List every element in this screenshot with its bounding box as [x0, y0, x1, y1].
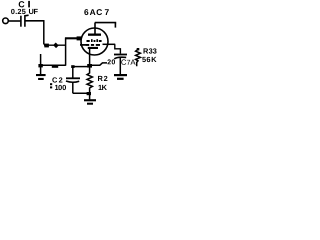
ground bottom bar2 — [87, 103, 93, 105]
grid lead to tube — [65, 37, 81, 39]
corner blob node — [44, 44, 49, 48]
grid stub left — [80, 44, 86, 46]
label C1 — [19, 1, 25, 7]
ground C7A bar1 — [114, 74, 127, 76]
capacitor C1 — [20, 16, 22, 27]
wire C1 to corner — [26, 20, 45, 22]
ground left bar2 — [38, 78, 44, 80]
cathode junction blob — [87, 64, 92, 68]
grid tick row1 a — [91, 39, 93, 42]
label 20 — [107, 59, 115, 64]
blob at tube edge — [77, 36, 82, 40]
C2 top lead — [72, 67, 74, 78]
grid dash row2 a — [86, 44, 89, 46]
label C1 digit 1 — [28, 1, 30, 8]
resistor R33 top dot — [137, 48, 140, 50]
cathode bar — [88, 47, 98, 49]
plate wire top — [95, 22, 116, 24]
wire down from C1 — [43, 21, 45, 45]
label R33 — [143, 48, 156, 53]
grid dash row1 b — [94, 40, 96, 42]
vertical riser at grid — [65, 38, 67, 66]
capacitor C7A top plate — [114, 54, 127, 56]
capacitor C7A bottom plate — [114, 57, 126, 59]
screen lead right — [103, 43, 116, 45]
label 1K — [98, 85, 106, 90]
label 56K — [142, 57, 156, 62]
corner junction blob — [38, 64, 42, 67]
ground riser bottom — [89, 93, 91, 99]
input terminal — [3, 18, 9, 24]
resistor R33 — [136, 49, 141, 66]
label 100 — [55, 85, 66, 90]
junction dot on grid wire — [53, 42, 59, 48]
bottom wire C2 to R2 — [73, 92, 90, 94]
grid dash row2 b — [91, 44, 94, 46]
grid dash row2 c — [96, 44, 100, 46]
label 100 leading colon mark — [50, 83, 52, 85]
capacitor C2 bottom plate — [66, 81, 79, 82]
ground left bar1 — [36, 74, 46, 76]
ground C7A bar2 — [117, 78, 124, 80]
left ground riser — [40, 54, 42, 74]
capacitor C2 top plate — [66, 77, 80, 79]
C2 bottom lead — [72, 82, 74, 93]
C7A bottom lead — [119, 58, 121, 74]
grid wire horizontal — [44, 44, 66, 46]
value label 0.25 UF — [11, 9, 38, 14]
bump on return wire — [52, 65, 58, 67]
label C7A — [121, 59, 135, 64]
resistor R2 — [87, 67, 92, 93]
cathode lead — [89, 49, 91, 68]
label R2 — [98, 76, 107, 81]
ground bottom bar1 — [84, 99, 96, 101]
label C2 — [52, 77, 62, 82]
lower return wire — [40, 64, 66, 66]
grid tick row1 b — [96, 39, 98, 42]
corner to C2 — [71, 65, 74, 68]
wire input to C1 — [8, 20, 20, 22]
label 6AC7 — [84, 9, 108, 15]
tube envelope 6AC7 — [81, 28, 108, 55]
cathode wire left — [72, 66, 87, 68]
cathode wire right — [91, 63, 107, 65]
plate lead — [94, 23, 96, 34]
plate bar — [88, 34, 101, 36]
screen wire down — [115, 44, 121, 53]
grid dash row1 a — [87, 40, 90, 42]
bottom junction blob — [87, 92, 91, 95]
grid dash row1 c — [99, 40, 102, 42]
plate wire stub down — [114, 23, 116, 28]
